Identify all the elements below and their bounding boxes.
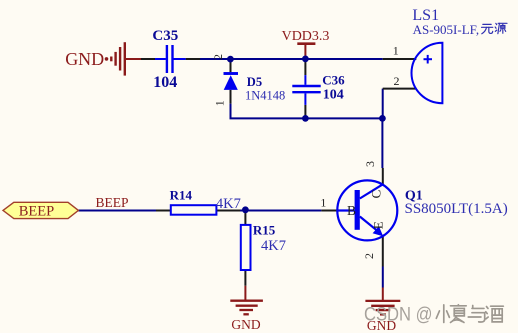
svg-text:BEEP: BEEP — [96, 195, 129, 210]
svg-text:BEEP: BEEP — [19, 204, 54, 220]
svg-text:R14: R14 — [170, 187, 193, 202]
svg-text:C36: C36 — [322, 72, 345, 87]
svg-text:4K7: 4K7 — [216, 196, 241, 212]
svg-text:1: 1 — [393, 44, 399, 58]
svg-text:C35: C35 — [152, 28, 178, 44]
svg-text:C: C — [369, 190, 384, 199]
svg-text:2: 2 — [211, 54, 225, 60]
svg-text:CSDN @: CSDN @ — [364, 304, 433, 325]
svg-text:2: 2 — [394, 74, 400, 88]
svg-text:SS8050LT(1.5A): SS8050LT(1.5A) — [405, 201, 508, 217]
svg-text:1N4148: 1N4148 — [245, 88, 285, 102]
svg-text:D5: D5 — [247, 75, 262, 89]
svg-text:GND: GND — [65, 49, 104, 69]
svg-text:R15: R15 — [253, 222, 276, 237]
svg-text:E: E — [370, 221, 385, 229]
svg-text:4K7: 4K7 — [261, 238, 286, 254]
svg-text:1: 1 — [320, 196, 326, 210]
svg-text:104: 104 — [153, 74, 177, 91]
svg-text:1: 1 — [213, 100, 227, 106]
svg-text:VDD3.3: VDD3.3 — [282, 29, 330, 44]
svg-text:104: 104 — [323, 88, 344, 103]
svg-text:2: 2 — [362, 253, 376, 259]
svg-text:B: B — [347, 203, 356, 218]
svg-text:GND: GND — [231, 317, 260, 332]
svg-text:AS-905I-LF,: AS-905I-LF, — [413, 22, 480, 37]
svg-text:3: 3 — [363, 161, 377, 167]
